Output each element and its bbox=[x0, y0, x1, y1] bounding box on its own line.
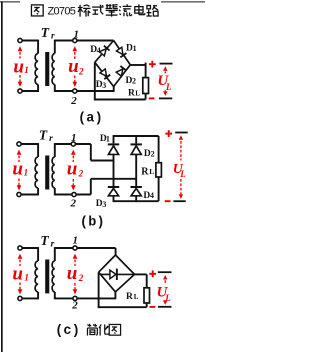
svg-text:4: 4 bbox=[150, 191, 154, 200]
svg-text:L: L bbox=[179, 169, 186, 179]
svg-text:r: r bbox=[51, 240, 55, 250]
svg-text:1: 1 bbox=[24, 65, 29, 75]
svg-text:T: T bbox=[39, 127, 48, 142]
svg-text:1: 1 bbox=[106, 135, 110, 144]
svg-text:T: T bbox=[40, 233, 49, 248]
svg-text:2: 2 bbox=[78, 66, 84, 76]
svg-text:1: 1 bbox=[73, 235, 79, 247]
svg-text:2: 2 bbox=[78, 168, 84, 178]
svg-text:T: T bbox=[41, 25, 50, 40]
svg-text:2: 2 bbox=[71, 300, 78, 312]
svg-text:L: L bbox=[149, 167, 154, 176]
svg-text:2: 2 bbox=[70, 95, 77, 107]
svg-text:3: 3 bbox=[102, 200, 106, 209]
svg-text:u: u bbox=[13, 57, 24, 78]
svg-text:2: 2 bbox=[151, 150, 155, 159]
svg-text:(c): (c) bbox=[55, 324, 80, 339]
svg-text:2: 2 bbox=[132, 76, 136, 85]
svg-text:L: L bbox=[134, 293, 139, 301]
svg-text:L: L bbox=[164, 293, 171, 303]
svg-text:2: 2 bbox=[70, 198, 77, 210]
svg-text:1: 1 bbox=[133, 44, 137, 53]
svg-text:L: L bbox=[165, 82, 172, 92]
svg-text:1: 1 bbox=[74, 29, 80, 41]
svg-text:L: L bbox=[135, 90, 140, 98]
svg-text:1: 1 bbox=[24, 168, 29, 178]
svg-text:u: u bbox=[67, 263, 78, 284]
svg-text:1: 1 bbox=[71, 132, 77, 144]
svg-text:Z0705: Z0705 bbox=[48, 5, 76, 17]
svg-text:R: R bbox=[126, 292, 133, 302]
svg-text:u: u bbox=[12, 264, 23, 285]
svg-text:2: 2 bbox=[78, 273, 84, 283]
svg-text:(b): (b) bbox=[80, 216, 105, 231]
svg-text:u: u bbox=[12, 159, 23, 180]
svg-text:1: 1 bbox=[24, 272, 29, 282]
svg-text:R: R bbox=[128, 89, 135, 99]
svg-text:R: R bbox=[141, 166, 149, 177]
svg-text:r: r bbox=[49, 134, 53, 144]
svg-text:(a): (a) bbox=[78, 111, 103, 126]
svg-text:4: 4 bbox=[97, 46, 101, 55]
svg-text:3: 3 bbox=[102, 81, 106, 90]
svg-text:r: r bbox=[51, 32, 55, 42]
svg-text:u: u bbox=[68, 56, 79, 77]
svg-text:u: u bbox=[67, 159, 78, 180]
